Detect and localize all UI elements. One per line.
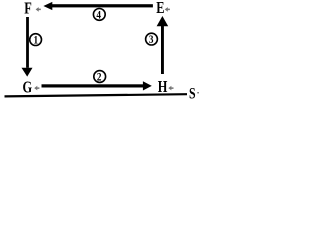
- marker after F: [36, 7, 41, 12]
- marker after E: [165, 7, 170, 12]
- baseline S (surface line): [5, 94, 188, 96]
- marker after G: [34, 86, 39, 91]
- marker after H: [168, 86, 173, 91]
- svg-text:3: 3: [149, 34, 154, 46]
- wire top arrow E to F: [52, 4, 153, 7]
- arrowhead of left arrow: [22, 68, 33, 77]
- label 1 (circled): [30, 34, 42, 47]
- marker after S: [197, 92, 200, 93]
- wire left arrow F to G: [26, 17, 29, 68]
- svg-text:2: 2: [97, 72, 102, 84]
- arrowhead of bottom arrow: [143, 81, 152, 90]
- svg-text:E: E: [156, 0, 164, 18]
- label 4 (circled): [93, 9, 105, 22]
- svg-text:1: 1: [34, 35, 39, 47]
- svg-text:G: G: [23, 79, 33, 97]
- svg-text:S: S: [189, 86, 196, 103]
- wire bottom arrow G to H: [42, 84, 144, 87]
- arrowhead of top arrow: [43, 2, 52, 10]
- arrowhead of right arrow: [157, 16, 169, 26]
- wire right arrow H to E: [161, 26, 164, 74]
- label 2 (circled): [94, 71, 106, 84]
- svg-text:4: 4: [96, 10, 101, 22]
- svg-text:F: F: [24, 0, 32, 18]
- label 3 (circled): [146, 33, 158, 46]
